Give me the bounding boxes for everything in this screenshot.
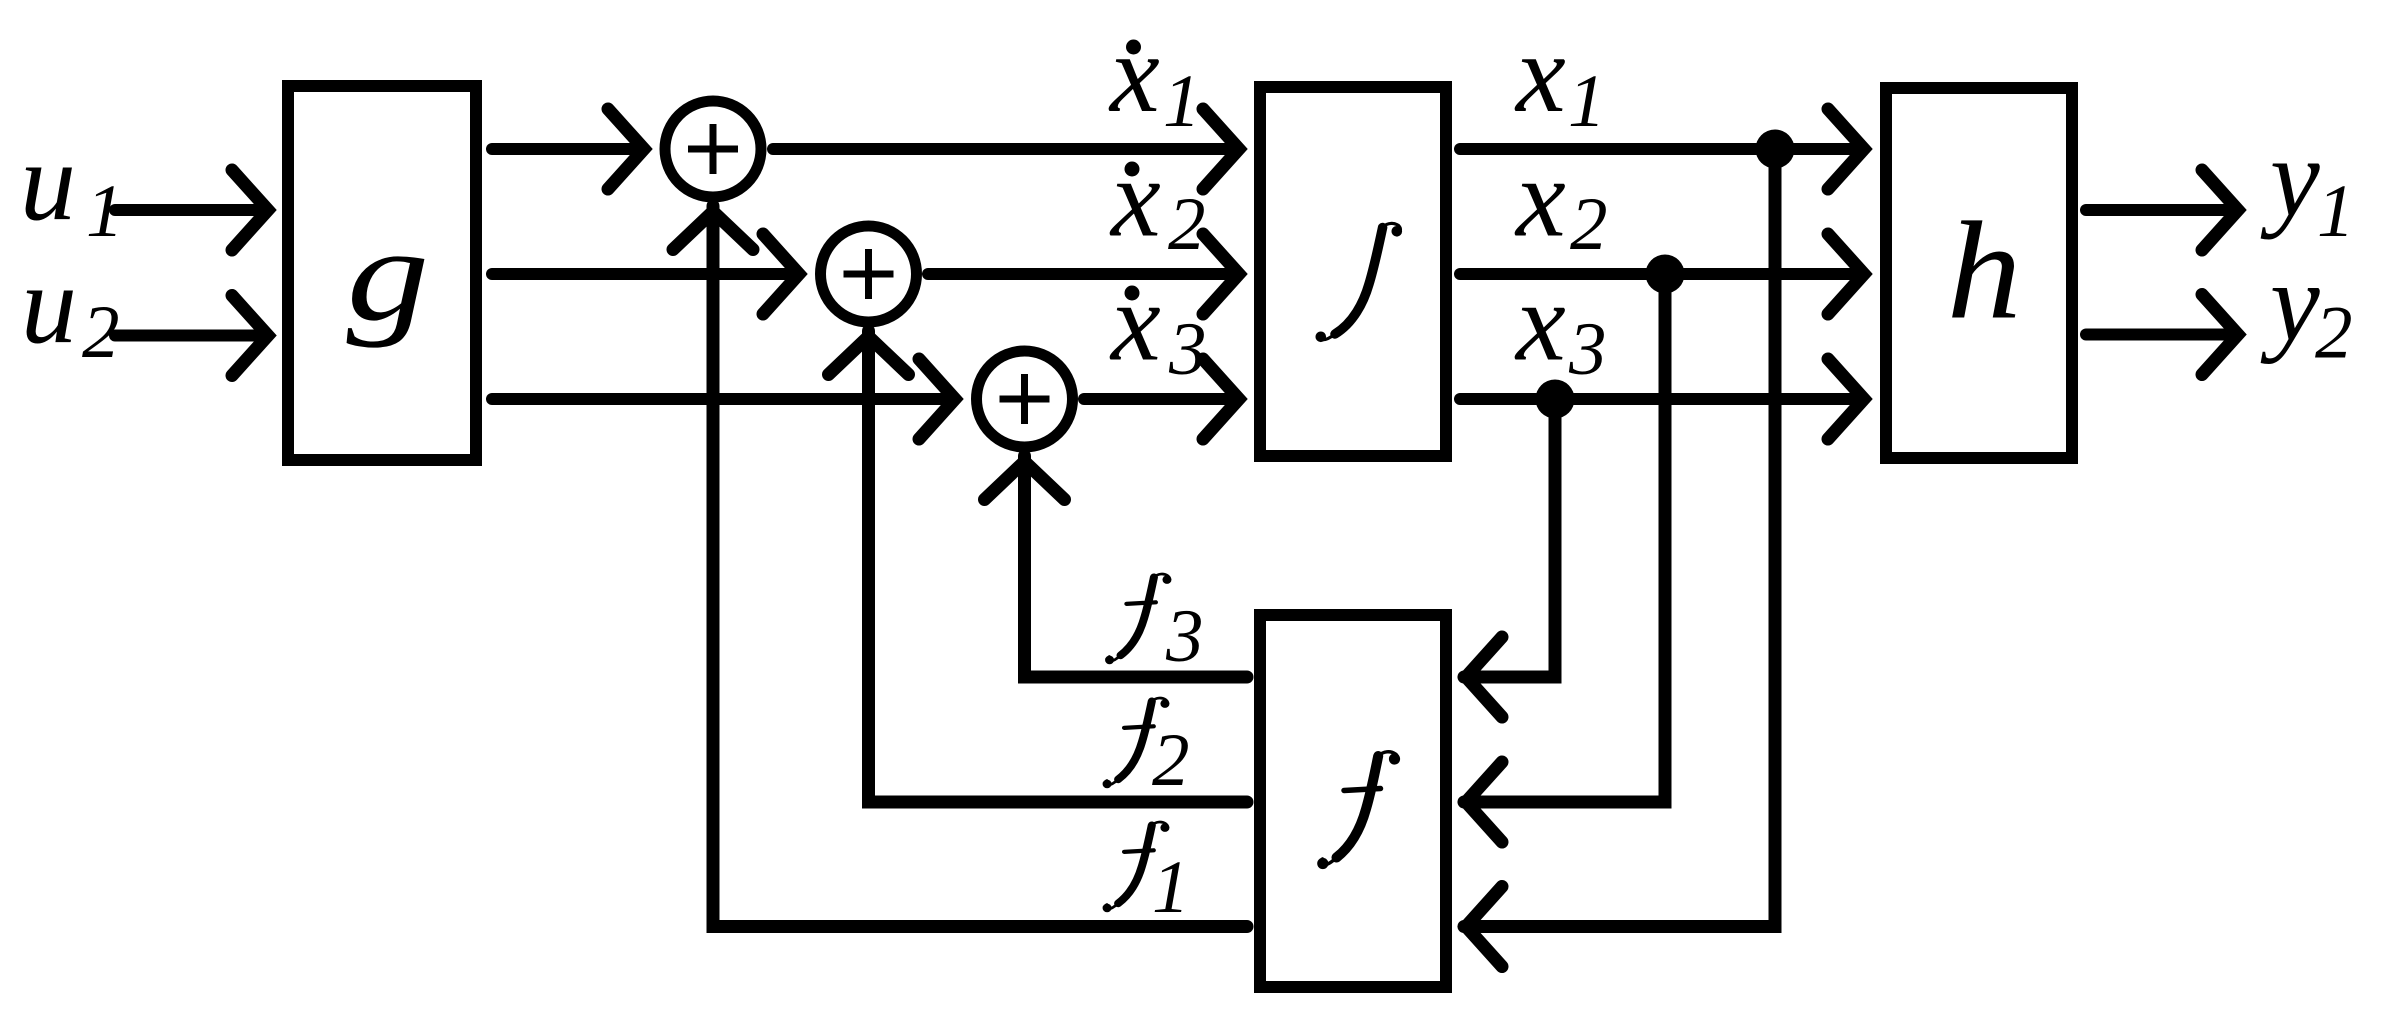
arrowhead f2 input from x2 <box>1466 762 1502 842</box>
svg-text:x: x <box>1108 12 1160 136</box>
svg-text:2: 2 <box>1570 183 1608 266</box>
svg-text:3: 3 <box>1168 308 1207 391</box>
wire x2 <box>1460 268 1863 280</box>
svg-text:1: 1 <box>1152 846 1190 929</box>
label u1 <box>20 120 124 253</box>
svg-text:2: 2 <box>82 291 120 374</box>
wire g out 1 <box>492 143 643 155</box>
arrowhead u1 into g <box>232 170 268 250</box>
arrowhead up into sum1 <box>673 212 753 250</box>
arrowhead x2 into h <box>1828 234 1864 314</box>
label x2 <box>1514 137 1608 267</box>
summing junction 1 <box>665 101 761 197</box>
wire u1 <box>115 204 266 216</box>
label xdot1 <box>1108 12 1201 143</box>
wire u2 <box>115 330 266 342</box>
wire x3 <box>1460 393 1863 405</box>
arrowhead up into sum3 <box>985 462 1065 500</box>
label f3 <box>1105 574 1203 678</box>
arrowhead u2 into g <box>232 296 268 376</box>
block h <box>1886 88 2072 458</box>
svg-text:1: 1 <box>86 170 124 253</box>
junction dot x2 <box>1646 255 1685 294</box>
svg-text:y: y <box>2260 116 2320 240</box>
letter f <box>1317 752 1400 869</box>
label x3 <box>1514 261 1607 392</box>
wire feedback x3 right <box>1464 399 1555 677</box>
arrowhead x1 into h <box>1828 109 1864 189</box>
summing junction 3 <box>977 351 1073 447</box>
svg-text:u: u <box>21 243 77 367</box>
wire feedback f3 left <box>1025 456 1248 677</box>
arrowhead y1 <box>2202 170 2238 250</box>
svg-text:g: g <box>347 200 430 348</box>
wire xdot2 <box>928 268 1238 280</box>
wire y1 <box>2086 204 2237 216</box>
arrowhead x3 into h <box>1828 359 1864 439</box>
label u2 <box>21 243 120 374</box>
arrowhead xdot3 into integrator <box>1203 359 1239 439</box>
letter h <box>1947 194 2022 349</box>
wire feedback x2 right <box>1464 274 1665 802</box>
svg-text:x: x <box>1109 261 1161 385</box>
wire xdot3 <box>1084 393 1238 405</box>
wire x1 <box>1460 143 1863 155</box>
wire xdot1 <box>773 143 1238 155</box>
svg-text:x: x <box>1109 137 1161 261</box>
block g <box>288 86 476 460</box>
label f2 <box>1103 698 1190 802</box>
label y1 <box>2260 116 2355 253</box>
svg-text:1: 1 <box>2317 170 2355 253</box>
svg-text:h: h <box>1947 194 2022 349</box>
wire feedback x1 right <box>1464 149 1775 927</box>
arrowhead into sum2 <box>763 234 799 314</box>
svg-text:x: x <box>1514 12 1566 136</box>
svg-text:2: 2 <box>1168 183 1206 266</box>
svg-text:3: 3 <box>1165 595 1204 678</box>
label xdot2 <box>1109 137 1206 267</box>
arrowhead xdot2 into integrator <box>1203 234 1239 314</box>
label xdot3 <box>1109 261 1207 392</box>
wire g out 3 <box>492 393 954 405</box>
svg-text:3: 3 <box>1568 308 1607 391</box>
arrowhead f3 input from x3 <box>1466 637 1502 717</box>
svg-text:y: y <box>2260 241 2320 365</box>
label x1 <box>1514 12 1606 143</box>
svg-text:1: 1 <box>1163 60 1201 143</box>
integrator block <box>1260 87 1446 456</box>
arrowhead up into sum2 <box>829 337 909 375</box>
junction dot x1 <box>1756 130 1795 169</box>
svg-text:1: 1 <box>1568 60 1606 143</box>
wire y2 <box>2086 329 2237 341</box>
block f <box>1260 615 1446 987</box>
wire feedback f2 left <box>869 331 1248 802</box>
svg-text:x: x <box>1514 137 1566 261</box>
svg-text:2: 2 <box>1152 719 1190 802</box>
svg-text:x: x <box>1514 261 1566 385</box>
label y2 <box>2260 241 2353 375</box>
wire feedback f1 left <box>713 206 1247 927</box>
arrowhead into sum1 <box>608 109 644 189</box>
svg-text:u: u <box>20 120 76 244</box>
label f1 <box>1103 822 1190 929</box>
summing junction 2 <box>821 226 917 322</box>
arrowhead f1 input from x1 <box>1466 887 1502 967</box>
letter g <box>347 200 430 348</box>
wire g out 2 <box>492 268 798 280</box>
junction dot x3 <box>1536 380 1575 419</box>
svg-text:2: 2 <box>2315 292 2353 375</box>
arrowhead into sum3 <box>919 359 955 439</box>
arrowhead y2 <box>2202 295 2238 375</box>
arrowhead xdot1 into integrator <box>1203 109 1239 189</box>
letter integral <box>1316 223 1403 342</box>
